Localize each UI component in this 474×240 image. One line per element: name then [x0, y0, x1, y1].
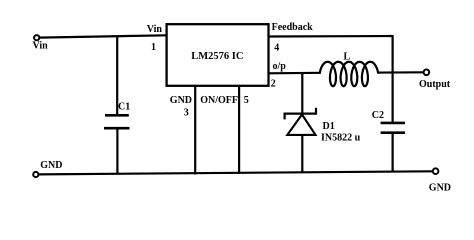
capacitor C1 bottom plate: [104, 127, 130, 130]
diode D1 cathode bar (schottky): [285, 108, 316, 120]
ground terminal left (open circle): [33, 172, 38, 177]
ground rail wire: [38, 171, 432, 174]
capacitor C2 top plate: [381, 122, 405, 125]
wire: C2 bottom plate to ground rail: [392, 133, 394, 172]
svg-text:GND: GND: [429, 183, 451, 194]
wire: D1 branch from o/p wire down to diode cathode: [301, 73, 303, 114]
input terminal Vin (open circle): [34, 35, 39, 40]
svg-text:Vin: Vin: [33, 41, 49, 52]
svg-text:Output: Output: [419, 79, 451, 90]
ground terminal right (open circle): [433, 168, 439, 174]
svg-text:Feedback: Feedback: [272, 22, 314, 33]
wire: feedback horizontal from IC pin 4 to node above C2: [268, 35, 394, 38]
wire: IC pin 5 (ON/OFF) down to ground rail: [238, 86, 240, 174]
svg-text:5: 5: [244, 95, 249, 106]
wire: inductor to output terminal: [378, 71, 424, 73]
svg-text:1: 1: [151, 42, 156, 53]
svg-text:L: L: [344, 52, 351, 63]
svg-text:LM2576 IC: LM2576 IC: [191, 51, 243, 62]
inductor L coil: [320, 62, 378, 86]
svg-text:IN5822 u: IN5822 u: [321, 133, 361, 144]
svg-text:4: 4: [274, 43, 279, 54]
svg-text:C2: C2: [372, 110, 384, 121]
op IC U1 LM2576 box: [167, 24, 269, 86]
svg-text:Vin: Vin: [147, 24, 163, 35]
wire: Vin terminal to IC pin 1: [39, 35, 167, 37]
svg-text:o/p: o/p: [273, 61, 287, 72]
capacitor C2 bottom plate: [381, 131, 405, 134]
wire: feedback vertical drop into output node / C2 top: [392, 36, 394, 123]
wire: IC pin 3 (GND) down to ground rail: [194, 86, 196, 175]
svg-text:ON/OFF: ON/OFF: [200, 95, 238, 106]
wire: IC pin 2 o/p to inductor: [268, 72, 321, 75]
svg-text:3: 3: [184, 107, 189, 118]
wire: D1 anode down to ground rail: [301, 135, 303, 173]
svg-text:2: 2: [271, 79, 276, 90]
svg-text:GND: GND: [170, 95, 192, 106]
svg-text:C1: C1: [118, 102, 130, 113]
wire: C1 branch from Vin rail down to C1 top plate: [116, 36, 118, 116]
output terminal (open circle): [424, 70, 430, 76]
wire: C1 bottom plate to ground rail: [116, 128, 118, 174]
svg-text:D1: D1: [323, 121, 335, 132]
capacitor C1 top plate: [105, 114, 129, 117]
svg-text:GND: GND: [40, 160, 62, 171]
diode D1 triangle (anode, pointing up): [287, 115, 315, 135]
